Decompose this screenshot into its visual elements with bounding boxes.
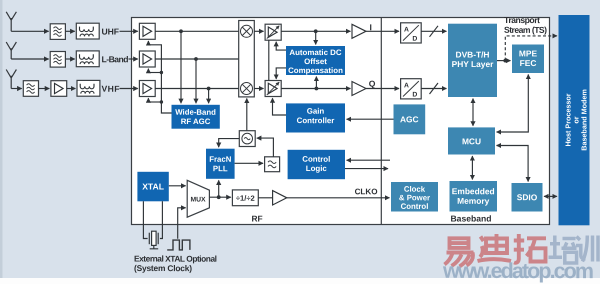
wire LNA1 to mixer block: [155, 30, 239, 32]
watermark char di: [478, 234, 512, 261]
wire antenna A3 to filter F3: [11, 88, 22, 90]
svg-text:Wide-Band: Wide-Band: [175, 108, 216, 117]
wire ADC1 to PHY with bus slash: [421, 26, 446, 37]
antenna A3: [6, 70, 16, 89]
wire PHY-MCU double arrow: [472, 99, 474, 126]
label L-Band: [101, 54, 128, 64]
clock buffer triangle: [273, 191, 287, 205]
label Transport Stream (TS): [504, 15, 547, 35]
watermark www.edatop.com: [442, 259, 594, 283]
svg-text:SDIO: SDIO: [517, 192, 538, 202]
watermark char tuo: [514, 234, 546, 263]
watermark char yi: [445, 238, 474, 266]
junction on UHF line: [179, 29, 183, 33]
svg-text:MCU: MCU: [462, 136, 481, 146]
svg-text:Stream (TS): Stream (TS): [504, 25, 547, 35]
VGA2: [265, 81, 281, 97]
svg-text:Control: Control: [401, 202, 429, 211]
LNA1: [139, 23, 155, 39]
wire PHY to MPE FEC: [497, 60, 510, 62]
junction dots on AGC bus: [160, 71, 163, 104]
wire MUX output: [209, 196, 230, 198]
wire LNA3 to mixer block: [155, 88, 239, 90]
svg-text:Q: Q: [369, 79, 376, 89]
LNA2: [139, 51, 155, 67]
loop filter: [265, 157, 280, 172]
mixer block: [239, 21, 255, 97]
svg-text:FracN: FracN: [209, 155, 231, 164]
wire divider to clock buffer: [258, 197, 272, 199]
svg-text:Controller: Controller: [297, 116, 335, 125]
ADC2 A/D: [401, 79, 422, 99]
label VHF: [101, 84, 119, 94]
svg-text:PHY Layer: PHY Layer: [452, 59, 495, 69]
junction on TS wire: [503, 59, 507, 63]
FracN PLL box: [206, 149, 235, 179]
VGA1: [265, 24, 281, 40]
svg-text:Automatic DC: Automatic DC: [289, 48, 341, 57]
balun B2: [76, 51, 99, 67]
junction on Q wire: [315, 87, 319, 91]
wire VCO to FracN PLL: [219, 139, 240, 148]
svg-text:RF: RF: [251, 214, 262, 224]
arrow into LNA2 bottom: [147, 69, 149, 73]
svg-text:D: D: [412, 36, 417, 43]
Embedded Memory box: [450, 181, 498, 212]
wire balun B1 to LNA1: [120, 30, 138, 32]
svg-text:I: I: [369, 22, 371, 32]
junction on I wire: [314, 29, 318, 33]
mixer M1 (I): [241, 25, 253, 37]
SDIO box: [512, 183, 543, 212]
wire external clock to MUX: [178, 208, 186, 239]
wire MCU to SDIO: [497, 146, 528, 182]
filter F3: [23, 81, 38, 97]
wire SDIO to host double arrow: [544, 195, 557, 197]
wire LNA2 to mixer block: [155, 58, 239, 60]
wire ADCC to VGA2 top: [276, 68, 286, 79]
wire antenna A2 to filter F2: [11, 58, 48, 60]
svg-text:RF AGC: RF AGC: [181, 117, 211, 126]
wire amp to balun B3: [67, 88, 76, 90]
wire junction VHF down to Wide-Band RF AGC: [208, 89, 210, 104]
antenna A2: [6, 42, 16, 59]
wire I buffer to ADC1: [366, 30, 399, 32]
svg-text:AGC: AGC: [400, 114, 419, 124]
MPE FEC box: [512, 45, 544, 74]
svg-text:Gain: Gain: [307, 107, 325, 116]
dashed TS wire to host: [505, 36, 557, 61]
wire balun B2 to LNA2: [129, 58, 138, 60]
antenna A1: [6, 12, 16, 32]
svg-text:Embedded: Embedded: [452, 186, 495, 196]
Clock and Power Control box: [391, 182, 438, 212]
divider box 1/2: [232, 190, 258, 206]
wire Gain Controller to VGA2 bottom: [273, 98, 287, 115]
AGC feedback bus to LNAs: [148, 45, 171, 113]
wire FracN PLL to loop filter: [235, 162, 263, 164]
filter F2: [50, 52, 65, 68]
wire ADCC to VGA1 bottom: [276, 42, 286, 50]
wire MPE FEC to MCU: [497, 75, 529, 132]
amp VHF preamp: [51, 81, 67, 97]
svg-text:A: A: [404, 82, 409, 89]
wire junction up to FracN PLL bottom: [218, 180, 220, 197]
Control Logic box: [288, 150, 345, 179]
junction on VHF line: [207, 87, 211, 91]
svg-text:Baseband Modem: Baseband Modem: [579, 89, 588, 151]
wire mixer to VGA1: [254, 30, 263, 32]
label Q: [369, 79, 376, 89]
MCU box: [448, 127, 495, 154]
filter F1: [50, 24, 65, 40]
svg-text:Logic: Logic: [306, 164, 328, 173]
crystal symbol: [149, 231, 158, 245]
RF / Baseband divider: [380, 18, 382, 225]
svg-text:Memory: Memory: [457, 196, 489, 206]
ADC1 A/D: [401, 23, 422, 43]
svg-text:Baseband: Baseband: [450, 213, 491, 223]
CLKO wire to Clock and Power Control: [287, 197, 390, 199]
wire Control Logic to baseband: [345, 168, 388, 170]
label UHF: [101, 27, 119, 37]
svg-text:XTAL: XTAL: [142, 181, 164, 191]
watermark char pei: [549, 236, 577, 264]
svg-text:UHF: UHF: [101, 27, 119, 37]
svg-text:÷1/÷2: ÷1/÷2: [236, 194, 255, 203]
LO wire VCO to mixer block: [246, 99, 248, 131]
wire F3 to amp A3amp: [39, 88, 50, 90]
label External XTAL Optional: [134, 254, 217, 274]
VCO: [239, 131, 255, 147]
junction on L-Band line: [194, 57, 198, 61]
mixer M2 (Q): [241, 83, 253, 95]
arrow into MCU right: [497, 145, 499, 147]
bottom white strip: [0, 278, 600, 284]
label CLKO: [355, 187, 378, 196]
wire VGA1 bottom to VGA2 top: [268, 40, 270, 80]
wire mixer to VGA2: [254, 88, 263, 90]
I buffer triangle: [352, 24, 366, 38]
svg-text:(System Clock): (System Clock): [134, 263, 192, 273]
svg-text:L-Band: L-Band: [101, 54, 128, 64]
MUX: [187, 180, 209, 217]
wire F2 to balun B2: [65, 58, 74, 60]
svg-text:Transport: Transport: [504, 15, 540, 25]
clock waveform glyph: [167, 240, 190, 250]
wire junction up to ADCC bottom: [315, 77, 317, 89]
wire XTAL to MUX: [169, 185, 186, 187]
arrow into MPE FEC bottom: [527, 75, 529, 77]
watermark char xun: [576, 236, 598, 262]
chip outline: [132, 18, 550, 225]
svg-text:Control: Control: [302, 155, 330, 164]
Q buffer triangle: [352, 82, 366, 96]
svg-text:FEC: FEC: [520, 58, 537, 68]
svg-text:VHF: VHF: [101, 84, 119, 94]
Automatic DC Offset Compensation box: [286, 46, 345, 75]
XTAL box: [137, 172, 168, 202]
wire loop filter to VCO: [257, 138, 274, 157]
left edge strip: [0, 0, 3, 284]
wire Q buffer to ADC2: [366, 88, 399, 90]
Q wire VGA2 to Q buffer: [281, 88, 350, 90]
crystal ground stem: [150, 245, 159, 248]
wire MCU-Embedded Memory double arrow: [471, 156, 473, 179]
balun B1: [76, 23, 99, 39]
wire junction L-Band down to Wide-Band RF AGC: [195, 59, 197, 103]
svg-text:Compensation: Compensation: [288, 66, 343, 75]
arrow into LNA3 bottom: [147, 98, 149, 102]
svg-text:CLKO: CLKO: [355, 187, 378, 196]
wire junction UHF down to Wide-Band RF AGC: [180, 31, 182, 103]
wire AGC to Gain Controller: [347, 118, 394, 120]
wire F1 to balun B1: [65, 30, 74, 32]
label I: [369, 22, 371, 32]
svg-text:Offset: Offset: [304, 57, 327, 66]
junction on MUX output: [217, 195, 221, 199]
wire into Control Logic from baseband: [347, 159, 390, 161]
wire ADC2 to PHY with bus slash: [421, 83, 446, 94]
wire antenna A1 to filter F1: [11, 30, 48, 32]
Wide-Band RF AGC box: [172, 105, 220, 129]
svg-text:www.edatop.com: www.edatop.com: [442, 259, 594, 283]
XTAL pin wire left: [143, 201, 147, 238]
label Baseband: [450, 213, 491, 223]
label RF: [251, 214, 262, 224]
Host Processor box: [559, 15, 590, 225]
AGC box: [394, 104, 426, 134]
svg-text:PLL: PLL: [213, 164, 228, 173]
arrow into LNA1 bottom: [147, 41, 149, 45]
svg-text:D: D: [412, 92, 417, 99]
DVB-T/H PHY Layer box: [448, 24, 497, 97]
balun B3: [77, 80, 100, 96]
Gain Controller box: [286, 103, 345, 132]
svg-text:MUX: MUX: [190, 196, 206, 203]
XTAL pin wire right: [160, 201, 163, 238]
svg-text:A: A: [404, 27, 409, 34]
LNA3: [139, 81, 155, 97]
I wire VGA1 to I buffer: [281, 30, 350, 32]
svg-text:MPE: MPE: [519, 48, 538, 58]
wire junction down to ADCC top: [315, 31, 317, 44]
wire balun B3 to LNA3: [120, 88, 138, 90]
